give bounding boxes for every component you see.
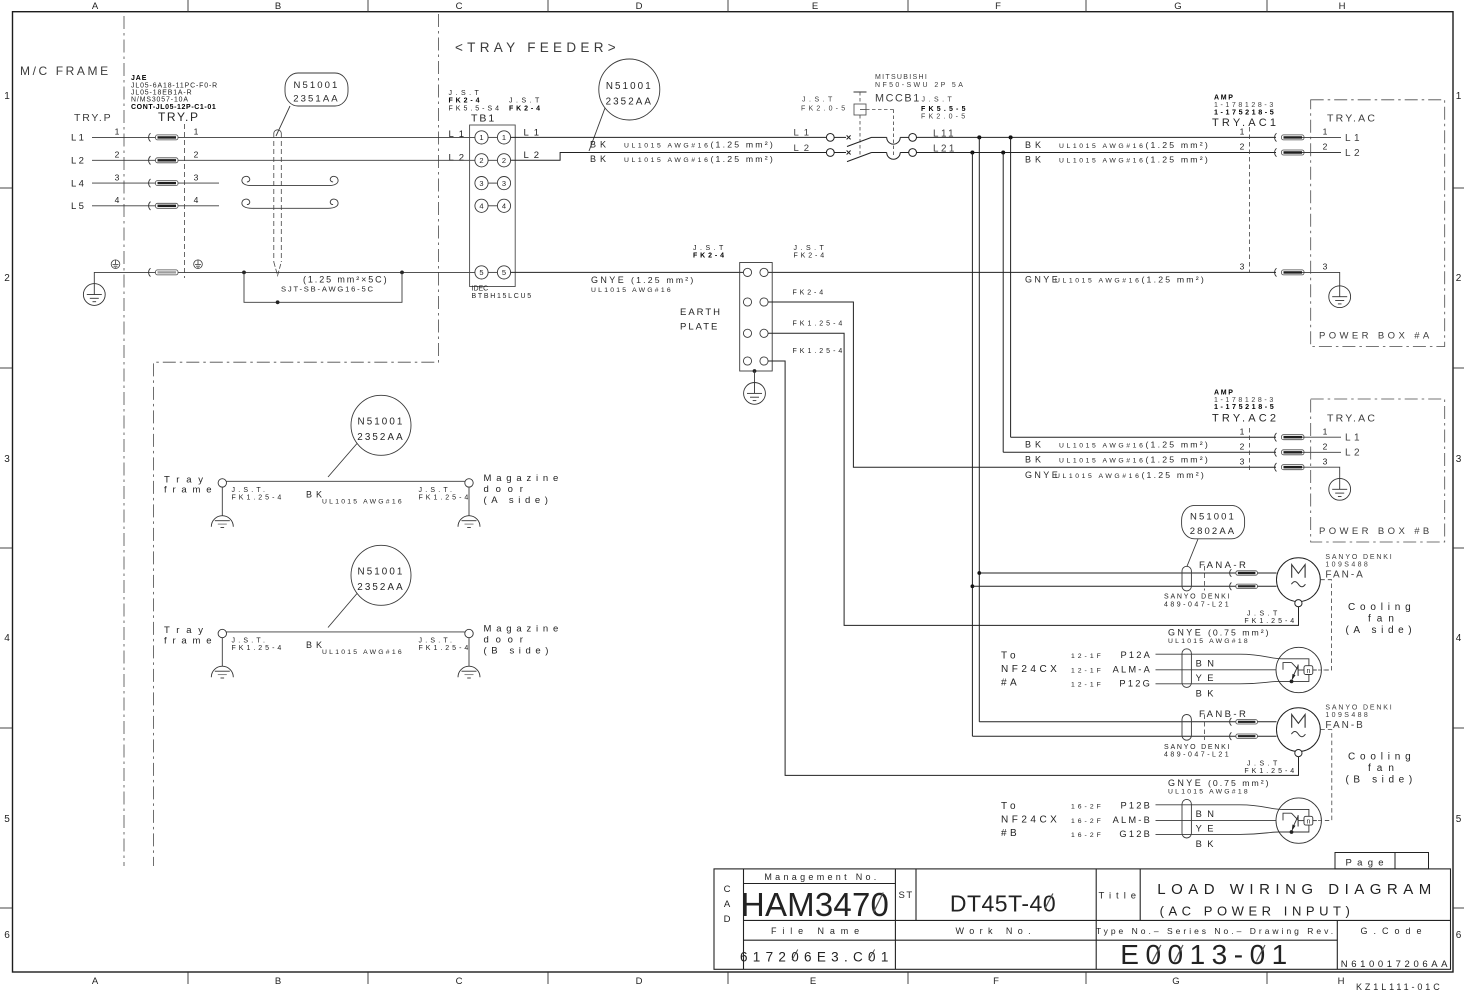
svg-text:L2: L2 — [449, 152, 470, 163]
svg-text:E: E — [810, 976, 816, 987]
vertical wire L1 to fans — [978, 137, 980, 721]
tray frame B right terminal — [465, 629, 473, 637]
svg-text:NF50-SWU 2P 5A: NF50-SWU 2P 5A — [875, 82, 965, 89]
svg-text:IDEC: IDEC — [472, 286, 489, 293]
svg-text:L2: L2 — [71, 156, 86, 167]
svg-text:J.S.T.: J.S.T. — [232, 637, 269, 644]
svg-text:fan: fan — [1368, 614, 1400, 625]
svg-text:1: 1 — [479, 133, 483, 142]
power box A ground — [1329, 286, 1351, 308]
svg-text:J.S.T.: J.S.T. — [419, 637, 456, 644]
svg-text:Magazine: Magazine — [484, 473, 564, 484]
svg-text:J.S.T: J.S.T — [693, 245, 727, 252]
svg-text:GNYE (0.75 mm²): GNYE (0.75 mm²) — [1168, 778, 1271, 788]
svg-text:FK1.25-4: FK1.25-4 — [793, 321, 846, 328]
svg-text:2: 2 — [1240, 142, 1245, 152]
svg-text:5: 5 — [479, 268, 483, 277]
svg-text:3: 3 — [479, 179, 483, 188]
FAN-B name labels — [1325, 705, 1393, 731]
signal names A — [1113, 650, 1152, 689]
TRY.P connector boundary dashed — [184, 124, 186, 278]
wire earth row3 to FAN-A ground — [768, 333, 1298, 625]
svg-text:TRY.AC1: TRY.AC1 — [1212, 117, 1279, 129]
tray frame B right chassis ground — [458, 666, 480, 678]
TRY.P pin numbers — [115, 127, 199, 205]
balloon N51001 2802AA — [1182, 505, 1245, 566]
TRY.AC1 contact 2 — [1275, 148, 1304, 156]
svg-text:3: 3 — [1240, 262, 1245, 272]
earth plate connector labels — [693, 245, 845, 355]
svg-text:JAE: JAE — [131, 75, 147, 82]
svg-text:FK1.25-4: FK1.25-4 — [419, 645, 472, 652]
svg-text:3: 3 — [1240, 457, 1245, 467]
vertical wire L1 to TRY.AC2 — [1010, 137, 1012, 437]
AMP connector info TRY.AC2 — [1212, 390, 1279, 425]
alarm sensor A — [1276, 647, 1330, 692]
wire label BK AC2-1 — [1025, 440, 1210, 450]
svg-text:3: 3 — [115, 172, 120, 182]
wire colour labels A — [1196, 658, 1220, 698]
svg-text:AMP: AMP — [1214, 95, 1235, 102]
TB1 terminal numbers — [479, 133, 506, 277]
tray A wire label — [306, 490, 404, 506]
cable sheath dashed (TRY.P cable) — [274, 130, 282, 276]
svg-text:1: 1 — [1456, 91, 1462, 102]
svg-text:(A side): (A side) — [484, 495, 553, 506]
signal cable oval B — [1182, 799, 1191, 838]
svg-text:4: 4 — [479, 202, 483, 211]
svg-text:(A side): (A side) — [1346, 625, 1417, 636]
svg-text:BK: BK — [1025, 440, 1045, 450]
svg-text:BK: BK — [1025, 455, 1045, 465]
GNYE wire earth plate to TRY.AC1 — [768, 271, 1276, 273]
svg-text:3: 3 — [4, 454, 10, 465]
svg-text:ALM-A: ALM-A — [1113, 665, 1152, 675]
wire colour labels B — [1196, 809, 1220, 849]
svg-text:FK1.25-4: FK1.25-4 — [793, 348, 846, 355]
dashed link motor A to sensor A — [1320, 580, 1331, 670]
svg-text:YE: YE — [1196, 824, 1219, 834]
M/C frame boundary dash-dot line — [123, 16, 125, 866]
svg-text:L1: L1 — [1345, 133, 1363, 144]
tray B wire label — [306, 640, 404, 656]
svg-text:2: 2 — [115, 150, 120, 160]
svg-text:J.S.T: J.S.T — [449, 90, 483, 97]
IDEC part number — [472, 286, 533, 301]
svg-text:Tray: Tray — [164, 474, 210, 485]
svg-text:3: 3 — [1323, 457, 1328, 467]
svg-text:1: 1 — [4, 91, 10, 102]
svg-text:BTBH15LCU5: BTBH15LCU5 — [472, 293, 533, 300]
svg-text:FK1.25-4: FK1.25-4 — [232, 645, 285, 652]
svg-text:TRY.P: TRY.P — [74, 112, 112, 124]
svg-text:TB1: TB1 — [471, 112, 496, 124]
svg-text:12-1F: 12-1F — [1071, 667, 1104, 674]
svg-text:G: G — [1174, 1, 1181, 12]
svg-text:2352AA: 2352AA — [606, 97, 653, 108]
signal cable oval A — [1182, 649, 1191, 688]
vertical wire L2 to fans — [971, 153, 973, 737]
TRY.P contact L1 — [149, 133, 178, 141]
title block frame — [714, 869, 1451, 969]
svg-text:J.S.T: J.S.T — [802, 96, 836, 103]
TRY.AC2 pin numbers — [1240, 426, 1328, 466]
svg-text:E: E — [812, 1, 818, 12]
svg-text:N51001: N51001 — [294, 80, 340, 91]
signal wires into sensor A — [1156, 654, 1283, 684]
svg-text:frame: frame — [164, 635, 217, 646]
svg-text:HAM3470: HAM3470 — [741, 886, 889, 923]
svg-text:1: 1 — [1323, 426, 1328, 436]
POWER BOX #A enclosure — [1311, 100, 1445, 347]
svg-text:2: 2 — [502, 156, 506, 165]
svg-text:To: To — [1001, 651, 1020, 662]
node L2 AC2 feed — [1001, 151, 1005, 155]
signal names B — [1113, 801, 1152, 840]
signal pin refs A — [1071, 653, 1104, 689]
svg-text:door: door — [484, 635, 530, 646]
TRY.AC1 contact 1 — [1275, 133, 1304, 141]
balloon N51001 2351AA — [276, 73, 348, 136]
svg-text:2: 2 — [1240, 442, 1245, 452]
MCCB1 labels — [801, 74, 969, 120]
grid column letters bottom — [92, 976, 1345, 987]
Tray frame B label — [164, 625, 217, 646]
svg-text:PLATE: PLATE — [680, 322, 719, 333]
svg-text:(B side): (B side) — [1346, 775, 1417, 786]
svg-text:D: D — [724, 914, 731, 925]
svg-text:G.Code: G.Code — [1360, 926, 1427, 936]
svg-text:L2: L2 — [524, 150, 545, 161]
TRY.AC2 contact 2 — [1275, 448, 1304, 456]
L4 spare wire curl — [242, 176, 338, 185]
svg-text:FANA-R: FANA-R — [1199, 560, 1248, 571]
JAE connector part numbers — [131, 75, 218, 111]
wire label BK L11 — [1025, 140, 1210, 150]
tray frame B left terminal — [218, 629, 226, 637]
svg-text:L11: L11 — [933, 128, 956, 139]
svg-text:L2: L2 — [794, 143, 815, 154]
earth plate labels — [680, 307, 722, 333]
svg-text:4: 4 — [194, 195, 199, 205]
svg-text:L5: L5 — [71, 201, 86, 212]
svg-text:n: n — [1306, 819, 1310, 826]
svg-text:2: 2 — [1323, 442, 1328, 452]
svg-text:P12A: P12A — [1120, 650, 1152, 660]
balloon N51001 2352AA tray A — [328, 395, 411, 477]
Magazine door A label — [484, 473, 564, 506]
earth plate ground stem — [753, 369, 757, 373]
wire L11 MCCB to TRY.AC1 — [917, 136, 1277, 138]
svg-text:L2: L2 — [1345, 448, 1363, 459]
svg-text:fan: fan — [1368, 763, 1400, 774]
svg-text:5: 5 — [4, 814, 10, 825]
svg-text:FK2-4: FK2-4 — [693, 253, 727, 260]
junction node SJT box right — [400, 271, 404, 275]
svg-text:L1: L1 — [71, 133, 86, 144]
alarm sensor B — [1276, 798, 1330, 843]
svg-text:BK: BK — [1196, 839, 1219, 849]
svg-text:F: F — [995, 1, 1001, 12]
svg-text:N610017206AA: N610017206AA — [1341, 959, 1451, 970]
svg-text:FK1.25-4: FK1.25-4 — [1244, 768, 1297, 775]
svg-text:1: 1 — [1240, 127, 1245, 137]
motor FAN-A — [1277, 558, 1321, 607]
tray frame A left terminal — [218, 479, 226, 487]
svg-text:5: 5 — [1456, 814, 1462, 825]
TB1 terminal pair 4 — [475, 199, 511, 212]
svg-text:L1: L1 — [1345, 433, 1363, 444]
svg-text:G: G — [1172, 976, 1179, 987]
svg-text:ALM-B: ALM-B — [1113, 815, 1152, 825]
svg-text:2: 2 — [4, 273, 10, 284]
svg-text:12-1F: 12-1F — [1071, 681, 1104, 688]
tray frame A right drop — [468, 487, 470, 515]
FAN-A name labels — [1325, 554, 1393, 581]
svg-text:BN: BN — [1196, 809, 1220, 819]
svg-text:(1.25 mm²×5C): (1.25 mm²×5C) — [303, 275, 388, 285]
TB1 terminal pair 1 — [475, 131, 511, 144]
svg-text:GNYE (1.25 mm²): GNYE (1.25 mm²) — [591, 275, 696, 285]
GNYE label FAN-B — [1168, 778, 1271, 796]
wire label BK AC2-2 — [1025, 455, 1210, 465]
wire label BK L2 — [590, 154, 775, 164]
svg-text:2: 2 — [1456, 273, 1462, 284]
SJT cable spec box — [244, 272, 402, 302]
tray frame A right terminal — [465, 479, 473, 487]
svg-text:4: 4 — [115, 195, 120, 205]
svg-text:EARTH: EARTH — [680, 307, 722, 318]
TB1 terminal block outline — [470, 125, 516, 287]
TB1 terminal pair 2 — [475, 154, 511, 167]
svg-text:Cooling: Cooling — [1348, 752, 1416, 763]
POWER BOX #B enclosure — [1311, 399, 1445, 542]
svg-text:AMP: AMP — [1214, 390, 1235, 397]
svg-text:SANYO DENKI: SANYO DENKI — [1325, 705, 1393, 712]
svg-text:N/MS3057-10A: N/MS3057-10A — [131, 97, 189, 104]
svg-text:door: door — [484, 484, 530, 495]
tray frame B left chassis ground — [211, 666, 233, 678]
svg-text:1: 1 — [502, 133, 506, 142]
svg-text:L1: L1 — [794, 128, 815, 139]
L-labels TRY.P — [71, 133, 86, 213]
svg-text:4: 4 — [4, 633, 10, 644]
node fan A branch L2 — [971, 584, 975, 588]
svg-text:TRY.AC2: TRY.AC2 — [1212, 413, 1279, 425]
PE symbol left — [111, 260, 120, 269]
wire L1 TRY.P to TB1 — [92, 136, 475, 138]
PE contact — [149, 268, 178, 276]
svg-text:4: 4 — [1456, 633, 1462, 644]
Cooling fan B side label — [1346, 752, 1417, 786]
wire L5 stub — [92, 205, 219, 207]
svg-text:H: H — [1338, 976, 1345, 987]
svg-text:489-047-L21: 489-047-L21 — [1164, 752, 1231, 759]
svg-text:UL1015 AWG#16: UL1015 AWG#16 — [322, 649, 404, 656]
earth plate pair 1 — [743, 268, 768, 276]
svg-text:(B side): (B side) — [484, 646, 554, 657]
svg-text:1: 1 — [194, 127, 199, 137]
svg-text:3: 3 — [194, 172, 199, 182]
svg-text:YE: YE — [1196, 673, 1219, 683]
FANB-R contact 1 — [1230, 718, 1258, 726]
svg-text:SANYO DENKI: SANYO DENKI — [1164, 594, 1231, 601]
svg-text:1-175218-5: 1-175218-5 — [1214, 402, 1276, 411]
svg-text:TRY.AC: TRY.AC — [1327, 113, 1377, 125]
TRY.P contact L4 — [149, 179, 178, 187]
L5 spare wire curl — [242, 199, 338, 208]
svg-text:3: 3 — [1456, 454, 1462, 465]
svg-text:P12G: P12G — [1119, 679, 1152, 689]
svg-text:N51001: N51001 — [1190, 512, 1236, 523]
svg-text:#A: #A — [1001, 678, 1020, 689]
svg-text:J.S.T: J.S.T — [922, 96, 956, 103]
Cooling fan A side label — [1346, 602, 1417, 636]
node L1 fan feed — [977, 135, 981, 139]
grid row numbers left — [4, 91, 10, 941]
svg-text:A: A — [92, 976, 99, 987]
svg-text:3: 3 — [502, 179, 506, 188]
svg-text:FANB-R: FANB-R — [1199, 709, 1248, 720]
slashed zeros overlay — [874, 893, 1053, 913]
motor FAN-B — [1277, 708, 1321, 757]
Page box — [1335, 853, 1429, 869]
svg-text:D: D — [636, 976, 643, 987]
svg-text:B: B — [275, 976, 281, 987]
grid column letters top — [92, 1, 1346, 12]
svg-text:L21: L21 — [933, 144, 957, 155]
wire earth row2 to TRY.AC2 GNYE — [768, 302, 1276, 467]
FAN-A feed wire 1 — [979, 572, 1276, 574]
GNYE wire TB1 to earth plate — [511, 271, 744, 273]
svg-text:DT45T-40: DT45T-40 — [950, 891, 1056, 917]
wire L4 stub — [92, 182, 219, 184]
junction node SJT box left — [242, 271, 246, 275]
svg-text:File Name: File Name — [771, 926, 865, 936]
svg-text:FK2-4: FK2-4 — [793, 289, 827, 296]
svg-text:BK: BK — [1196, 688, 1219, 698]
svg-text:Page: Page — [1346, 858, 1389, 869]
svg-text:J.S.T: J.S.T — [1247, 610, 1281, 617]
svg-text:Type No.– Series No.– Drawing: Type No.– Series No.– Drawing Rev. — [1096, 926, 1336, 936]
svg-text:BK: BK — [1025, 140, 1045, 150]
earth plate pair 2 — [743, 298, 768, 306]
svg-text:POWER BOX #A: POWER BOX #A — [1319, 331, 1433, 342]
svg-text:To: To — [1001, 801, 1020, 812]
GNYE label FAN-A — [1168, 628, 1271, 646]
TB1 terminal pair 3 — [475, 177, 511, 190]
svg-text:109S488: 109S488 — [1325, 561, 1370, 568]
svg-text:H: H — [1339, 1, 1346, 12]
svg-text:A: A — [92, 1, 99, 12]
svg-text:FK2.0-5: FK2.0-5 — [921, 113, 968, 120]
svg-text:Cooling: Cooling — [1348, 602, 1416, 613]
balloon N51001 2352AA tray B — [328, 545, 411, 627]
FANB-R boundary dash — [1203, 715, 1205, 741]
svg-text:3: 3 — [1323, 262, 1328, 272]
svg-text:16-2F: 16-2F — [1071, 832, 1104, 839]
svg-text:J.S.T.: J.S.T. — [232, 487, 269, 494]
ground wire from machine ground to TB1 — [94, 272, 475, 283]
svg-text:M/C FRAME: M/C FRAME — [20, 64, 111, 78]
tray frame B bond wire — [227, 631, 465, 633]
svg-text:N51001: N51001 — [606, 81, 653, 92]
FAN-A feed wire 2 — [972, 585, 1276, 587]
FAN-B feed wire 2 — [972, 735, 1276, 737]
svg-text:FK1.25-4: FK1.25-4 — [1244, 618, 1297, 625]
svg-text:C: C — [724, 884, 731, 895]
svg-text:SANYO DENKI: SANYO DENKI — [1325, 554, 1393, 561]
NF24CX #A label — [1001, 651, 1060, 689]
svg-text:489-047-L21: 489-047-L21 — [1164, 601, 1231, 608]
GNYE wire label TRY.AC1 — [1025, 275, 1206, 285]
grid row numbers right — [1456, 91, 1462, 941]
Tray frame A label — [164, 474, 217, 495]
svg-text:FK2-4: FK2-4 — [509, 105, 543, 112]
svg-text:L2: L2 — [1345, 148, 1363, 159]
tray B terminal labels — [232, 637, 472, 652]
svg-text:GNYE (0.75 mm²): GNYE (0.75 mm²) — [1168, 628, 1271, 638]
Magazine door B label — [484, 624, 564, 657]
TRY.AC2 feed wires — [1011, 436, 1276, 438]
svg-text:J.S.T: J.S.T — [509, 98, 543, 105]
MCCB1 pole 1 — [826, 134, 916, 147]
svg-text:1: 1 — [1240, 426, 1245, 436]
svg-text:UL1015 AWG#18: UL1015 AWG#18 — [1168, 638, 1250, 645]
svg-text:12-1F: 12-1F — [1071, 653, 1104, 660]
svg-text:Management No.: Management No. — [764, 872, 879, 882]
svg-text:F: F — [993, 976, 999, 987]
svg-text:4: 4 — [502, 202, 506, 211]
svg-text:BK: BK — [1025, 154, 1045, 164]
tray A terminal labels — [232, 487, 472, 502]
svg-text:L1: L1 — [449, 129, 470, 140]
svg-text:J.S.T: J.S.T — [1247, 761, 1281, 768]
svg-text:BK: BK — [590, 140, 610, 150]
svg-text:FAN-A: FAN-A — [1325, 570, 1364, 581]
svg-text:J.S.T: J.S.T — [794, 245, 828, 252]
svg-text:SANYO DENKI: SANYO DENKI — [1164, 744, 1231, 751]
balloon N51001 2352AA (feeder) — [589, 59, 660, 151]
wire L21 MCCB to TRY.AC1 — [917, 152, 1277, 154]
svg-text:#B: #B — [1001, 828, 1020, 839]
FANA-R boundary dash — [1203, 566, 1205, 591]
svg-text:SJT-SB-AWG16-5C: SJT-SB-AWG16-5C — [281, 285, 375, 294]
svg-text:N51001: N51001 — [358, 567, 405, 578]
svg-text:POWER BOX #B: POWER BOX #B — [1319, 526, 1433, 537]
svg-text:N51001: N51001 — [358, 417, 405, 428]
FAN-B feed wire 1 — [979, 721, 1276, 723]
svg-text:<TRAY FEEDER>: <TRAY FEEDER> — [455, 40, 620, 55]
TRY.AC2 contact 3 — [1275, 463, 1304, 471]
NF24CX #B label — [1001, 801, 1060, 839]
svg-text:FK1.25-4: FK1.25-4 — [232, 494, 285, 501]
TRY.AC1 connector boundary dashed — [1249, 127, 1251, 272]
tray frame B right drop — [468, 638, 470, 666]
svg-text:P12B: P12B — [1120, 801, 1152, 811]
tray frame B left drop — [221, 638, 223, 666]
svg-text:C: C — [456, 1, 463, 12]
svg-text:Magazine: Magazine — [484, 624, 564, 635]
svg-text:ST: ST — [899, 890, 914, 901]
TRY.AC1 pin numbers — [1240, 127, 1328, 272]
svg-text:1: 1 — [1323, 127, 1328, 137]
svg-text:L4: L4 — [71, 178, 86, 189]
TB1 wire tags — [449, 127, 545, 163]
svg-text:FK5.5-5: FK5.5-5 — [921, 106, 969, 113]
tray feeder unit boundary dash-dot — [154, 14, 439, 866]
svg-text:109S488: 109S488 — [1325, 712, 1370, 719]
